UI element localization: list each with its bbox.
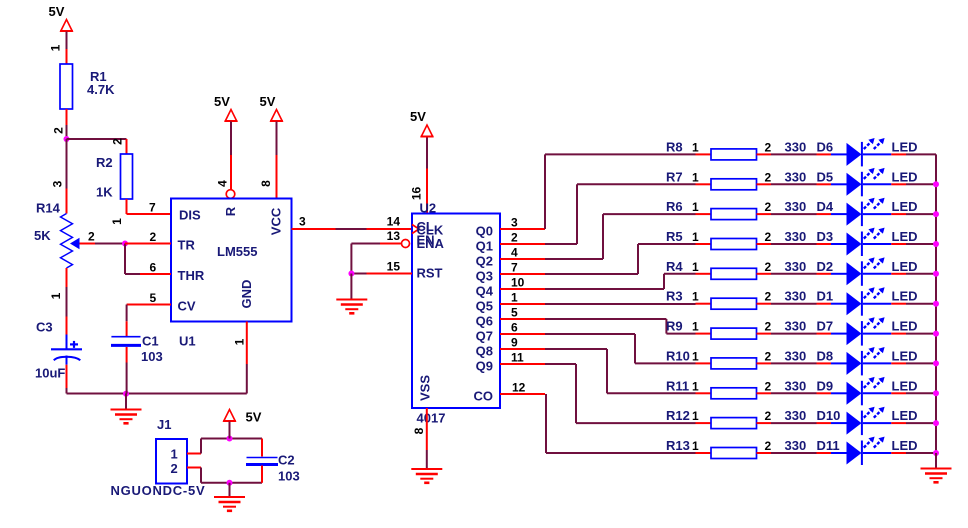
wire D8 to cathode bus [906, 362, 936, 364]
resistor R12 330 [666, 408, 806, 429]
svg-text:330: 330 [785, 199, 807, 214]
svg-text:2: 2 [765, 349, 772, 363]
wire D6 to cathode bus [906, 153, 936, 155]
cathode bus wire [935, 154, 937, 453]
svg-text:1: 1 [49, 44, 63, 51]
counter U2 4017 body [412, 201, 500, 426]
pin 8 wire VSS of U2 [426, 408, 428, 469]
svg-text:R2: R2 [96, 155, 113, 170]
wire R13 to D11 [771, 452, 817, 454]
wire U2 output to R3 [545, 303, 696, 305]
resistor R2 1K [96, 154, 133, 200]
wire C1 to ground rail [126, 347, 128, 394]
svg-text:2: 2 [765, 230, 772, 244]
resistor R4 330 [666, 259, 806, 280]
svg-text:GND: GND [239, 280, 254, 309]
svg-text:6: 6 [150, 261, 157, 275]
svg-text:LED: LED [892, 139, 918, 154]
wire R4 to D2 [771, 273, 817, 275]
pin 13 wire ENA of U2 [351, 243, 401, 245]
svg-text:2: 2 [765, 200, 772, 214]
wire U2 output to R4 [545, 274, 696, 289]
svg-text:CV: CV [178, 299, 196, 314]
pin 7 Q3 of U2 [476, 261, 545, 284]
svg-text:LM555: LM555 [217, 244, 257, 259]
svg-text:330: 330 [785, 289, 807, 304]
pin 1 wire GND of U1 [246, 322, 248, 394]
svg-text:R13: R13 [666, 438, 690, 453]
svg-text:3: 3 [51, 180, 65, 187]
svg-text:5V: 5V [49, 4, 65, 19]
wire D1 to cathode bus [906, 303, 936, 305]
svg-text:2: 2 [150, 230, 157, 244]
svg-text:1: 1 [692, 320, 699, 334]
svg-text:C2: C2 [278, 453, 295, 468]
svg-text:Q2: Q2 [476, 253, 493, 268]
wire R12 to D10 [771, 422, 817, 424]
svg-text:5V: 5V [410, 109, 426, 124]
LED D6 [817, 138, 918, 166]
svg-text:2: 2 [765, 290, 772, 304]
wire R14 wiper to TR node [80, 243, 126, 245]
pin 1 wire of J1 [187, 453, 201, 455]
svg-text:C3: C3 [36, 320, 53, 335]
svg-text:1: 1 [692, 349, 699, 363]
pin 13 bubble of U2 [402, 240, 410, 248]
svg-text:Q1: Q1 [476, 238, 493, 253]
svg-text:1: 1 [49, 292, 63, 299]
svg-text:LED: LED [892, 319, 918, 334]
capacitor C1 103 [111, 334, 163, 365]
svg-text:Q3: Q3 [476, 268, 493, 283]
svg-text:2: 2 [88, 230, 95, 244]
svg-text:10uF: 10uF [35, 366, 65, 381]
svg-text:3: 3 [299, 215, 306, 229]
power 5V net J1 [223, 410, 262, 439]
svg-text:330: 330 [785, 438, 807, 453]
svg-text:DIS: DIS [179, 208, 201, 223]
wire U2 output to R11 [545, 349, 696, 393]
svg-text:13: 13 [387, 229, 401, 243]
wire D7 to cathode bus [906, 333, 936, 335]
svg-text:8: 8 [259, 180, 273, 187]
svg-text:330: 330 [785, 259, 807, 274]
svg-text:1: 1 [692, 230, 699, 244]
svg-text:1: 1 [692, 409, 699, 423]
pin 11 Q9 of U2 [476, 351, 545, 374]
node J1 top junction [227, 436, 233, 442]
svg-text:R4: R4 [666, 259, 683, 274]
svg-text:1: 1 [110, 218, 124, 225]
svg-text:1: 1 [233, 338, 247, 345]
svg-text:7: 7 [511, 261, 518, 275]
svg-text:15: 15 [387, 260, 401, 274]
wire 5V to U1 pin4 [230, 122, 232, 190]
node RST junction [348, 271, 354, 277]
pin 5 wire CV of U1 [127, 304, 171, 306]
wire J1 to C2 bottom [201, 468, 262, 483]
svg-text:VCC: VCC [269, 207, 284, 235]
wire U2 output to R5 [545, 244, 696, 274]
svg-text:LED: LED [892, 408, 918, 423]
svg-text:D1: D1 [817, 289, 834, 304]
svg-text:NGUONDC-5V: NGUONDC-5V [111, 483, 206, 498]
pin 2 wire of J1 [187, 467, 201, 469]
svg-text:R5: R5 [666, 229, 683, 244]
svg-text:R8: R8 [666, 139, 683, 154]
pin 9 Q8 of U2 [476, 336, 545, 359]
svg-text:5V: 5V [246, 410, 262, 425]
pin 3 Q0 of U2 [476, 216, 545, 239]
svg-text:8: 8 [412, 427, 426, 434]
potentiometer R14 5K [34, 189, 80, 288]
LED D8 [817, 347, 918, 375]
pin 6 Q7 of U2 [476, 321, 545, 344]
svg-text:Q6: Q6 [476, 313, 493, 328]
node A junction [64, 136, 70, 142]
svg-text:D2: D2 [817, 259, 834, 274]
pin 2 wire TR of U1 [125, 243, 171, 245]
wire D10 to cathode bus [906, 422, 936, 424]
resistor R9 330 [666, 319, 806, 340]
pin 1 Q5 of U2 [476, 291, 545, 314]
wire 5V to U2 pin16 [426, 138, 428, 214]
wire node A to R14 [66, 139, 68, 189]
ground symbol left [111, 394, 142, 424]
wire D4 to cathode bus [906, 213, 936, 215]
svg-text:5: 5 [511, 306, 518, 320]
svg-text:1: 1 [171, 447, 178, 462]
svg-text:14: 14 [387, 215, 401, 229]
resistor R3 330 [666, 289, 806, 310]
resistor R10 330 [666, 348, 806, 369]
pin 5 Q6 of U2 [476, 306, 545, 329]
svg-text:5K: 5K [34, 228, 51, 243]
power 5V net U1 reset [214, 94, 237, 121]
wire R9 to D7 [771, 333, 817, 335]
svg-text:C1: C1 [142, 334, 159, 349]
pin 3 output wire of U1 [292, 228, 412, 230]
svg-text:R10: R10 [666, 348, 690, 363]
resistor R11 330 [666, 378, 806, 399]
svg-text:R: R [223, 206, 238, 216]
node J1 bottom junction [227, 480, 233, 486]
svg-text:LED: LED [892, 199, 918, 214]
svg-text:D7: D7 [817, 319, 834, 334]
svg-text:2: 2 [171, 461, 178, 476]
wire D9 to cathode bus [906, 392, 936, 394]
svg-text:D9: D9 [817, 378, 834, 393]
svg-text:1: 1 [692, 260, 699, 274]
resistor R8 330 [666, 139, 806, 160]
wire R14 to C3 [66, 287, 68, 317]
wire R6 to D4 [771, 213, 817, 215]
cathode bus junction row 2 [933, 181, 939, 187]
LED D5 [817, 168, 918, 196]
ground symbol LED bus [921, 453, 952, 482]
ground symbol J1 [214, 483, 245, 511]
svg-text:LED: LED [892, 378, 918, 393]
svg-text:1: 1 [692, 170, 699, 184]
wire R7 to D5 [771, 183, 817, 185]
wire U2 output to R8 [545, 154, 696, 229]
svg-text:D11: D11 [817, 438, 840, 453]
svg-text:VSS: VSS [418, 375, 433, 401]
wire D2 to cathode bus [906, 273, 936, 275]
svg-text:2: 2 [765, 439, 772, 453]
svg-text:2: 2 [111, 138, 125, 145]
svg-text:TR: TR [178, 238, 196, 253]
svg-text:Q5: Q5 [476, 298, 493, 313]
svg-text:Q4: Q4 [476, 283, 494, 298]
svg-text:5V: 5V [260, 94, 276, 109]
wire CV to C1 [126, 305, 128, 337]
capacitor C2 103 [246, 439, 300, 484]
svg-text:THR: THR [178, 268, 205, 283]
resistor R13 330 [666, 438, 806, 459]
svg-text:1: 1 [511, 291, 518, 305]
svg-text:4.7K: 4.7K [87, 82, 115, 97]
wire D11 to cathode bus [906, 452, 936, 454]
LED D9 [817, 377, 918, 405]
svg-text:2: 2 [765, 170, 772, 184]
svg-text:Q7: Q7 [476, 328, 493, 343]
svg-text:2: 2 [765, 260, 772, 274]
power 5V net R1 [49, 4, 73, 31]
pin 10 Q4 of U2 [476, 276, 545, 299]
wire TR node down to THR [124, 244, 126, 275]
svg-text:R7: R7 [666, 169, 683, 184]
svg-text:LED: LED [892, 259, 918, 274]
svg-text:R12: R12 [666, 408, 690, 423]
svg-text:2: 2 [765, 140, 772, 154]
svg-text:Q9: Q9 [476, 358, 493, 373]
cathode bus junction row 8 [933, 360, 939, 366]
ground symbol U2 enable [336, 274, 367, 314]
svg-text:6: 6 [511, 321, 518, 335]
LED D11 [817, 437, 918, 465]
pin 6 wire THR of U1 [125, 273, 171, 275]
svg-text:330: 330 [785, 319, 807, 334]
cathode bus junction row 3 [933, 211, 939, 217]
svg-text:D4: D4 [817, 199, 834, 214]
op-amp timer U1 LM555 body [171, 199, 292, 349]
ground symbol U2 VSS [411, 468, 442, 470]
resistor R5 330 [666, 229, 806, 250]
wire J1 to 5V and C2 top [201, 439, 262, 454]
svg-text:103: 103 [141, 349, 163, 364]
wire U2 output to R13 [546, 394, 696, 453]
svg-text:330: 330 [785, 139, 807, 154]
wire R11 to D9 [771, 392, 817, 394]
resistor R7 330 [666, 169, 806, 190]
svg-text:11: 11 [511, 351, 524, 365]
svg-text:330: 330 [785, 229, 807, 244]
wire D5 to cathode bus [906, 183, 936, 185]
svg-text:4: 4 [216, 180, 230, 187]
svg-text:D3: D3 [817, 229, 834, 244]
resistor R6 330 [666, 199, 806, 220]
wire 5V to R1 [66, 32, 68, 65]
resistor R1 4.7K [60, 64, 115, 109]
svg-text:330: 330 [785, 169, 807, 184]
svg-text:D8: D8 [817, 348, 834, 363]
ground rail wire [67, 393, 247, 395]
cathode bus junction row 6 [933, 301, 939, 307]
wire node A to R2 [67, 138, 127, 140]
wire U2 output to R6 [545, 214, 696, 259]
cathode bus junction row 5 [933, 271, 939, 277]
pin 15 wire RST of U2 [351, 273, 412, 275]
wire U2 output to R12 [545, 364, 696, 423]
svg-text:2: 2 [765, 409, 772, 423]
pin 12 CO of U2 [474, 381, 546, 404]
svg-text:Q0: Q0 [476, 223, 493, 238]
pin 4 Q2 of U2 [476, 246, 545, 269]
svg-text:RST: RST [417, 266, 443, 281]
svg-text:ENA: ENA [417, 236, 445, 251]
wire U2 output to R10 [545, 334, 696, 363]
svg-text:R3: R3 [666, 289, 683, 304]
LED D2 [817, 257, 918, 285]
power 5V net U1 VCC [260, 94, 283, 121]
cathode bus junction row 7 [933, 331, 939, 337]
svg-text:D6: D6 [817, 139, 834, 154]
wire R1 to node A [66, 109, 68, 139]
svg-text:330: 330 [785, 408, 807, 423]
svg-text:R6: R6 [666, 199, 683, 214]
svg-text:R11: R11 [666, 378, 689, 393]
svg-text:LED: LED [892, 348, 918, 363]
LED D1 [817, 287, 918, 315]
svg-text:1: 1 [692, 140, 699, 154]
wire U2 output to R7 [545, 184, 696, 244]
svg-text:2: 2 [511, 231, 518, 245]
svg-text:5V: 5V [214, 94, 230, 109]
svg-text:J1: J1 [157, 417, 171, 432]
cathode bus junction row 11 [933, 450, 939, 456]
connector J1 NGUONDC-5V [111, 417, 206, 498]
cathode bus junction row 4 [933, 241, 939, 247]
wire R3 to D1 [771, 303, 817, 305]
svg-text:1: 1 [692, 439, 699, 453]
wire R2 to DIS pin7 [127, 199, 172, 214]
pin 4 bubble [226, 190, 235, 199]
svg-text:9: 9 [511, 336, 518, 350]
svg-text:R14: R14 [36, 201, 61, 216]
svg-text:LED: LED [892, 438, 918, 453]
power 5V net U2 VDD [410, 109, 433, 137]
LED D10 [817, 407, 918, 435]
svg-text:7: 7 [149, 201, 156, 215]
wire R8 to D6 [771, 153, 817, 155]
capacitor C3 10uF polarized [35, 317, 82, 389]
svg-text:D5: D5 [817, 169, 834, 184]
svg-text:1K: 1K [96, 185, 113, 200]
svg-text:330: 330 [785, 378, 807, 393]
wire C3 to ground rail [66, 388, 68, 394]
svg-text:LED: LED [892, 169, 918, 184]
svg-text:CO: CO [474, 388, 494, 403]
svg-text:16: 16 [410, 187, 424, 201]
svg-text:1: 1 [692, 290, 699, 304]
svg-text:D10: D10 [817, 408, 841, 423]
svg-text:R9: R9 [666, 319, 683, 334]
cathode bus junction row 10 [933, 420, 939, 426]
svg-text:12: 12 [512, 381, 526, 395]
wire D3 to cathode bus [906, 243, 936, 245]
LED D4 [817, 198, 918, 226]
wire ENA to RST node [350, 244, 352, 274]
svg-text:LED: LED [892, 229, 918, 244]
ground rail junction [123, 391, 129, 397]
svg-text:330: 330 [785, 348, 807, 363]
svg-text:2: 2 [52, 127, 66, 134]
svg-text:5: 5 [150, 291, 157, 305]
svg-text:103: 103 [278, 469, 300, 484]
wire into R2 top [126, 139, 128, 154]
wire R10 to D8 [771, 362, 817, 364]
LED D7 [817, 317, 918, 345]
svg-text:2: 2 [765, 379, 772, 393]
svg-text:Q8: Q8 [476, 343, 493, 358]
svg-text:U1: U1 [179, 334, 196, 349]
svg-text:3: 3 [511, 216, 518, 230]
pin 2 Q1 of U2 [476, 231, 545, 254]
svg-text:LED: LED [892, 289, 918, 304]
wire U2 output to R9 [545, 319, 696, 334]
wire 5V to U1 pin8 [276, 122, 278, 199]
svg-text:10: 10 [511, 276, 525, 290]
cathode bus junction row 9 [933, 390, 939, 396]
svg-text:1: 1 [692, 379, 699, 393]
LED D3 [817, 228, 918, 256]
svg-text:4017: 4017 [417, 411, 446, 426]
svg-text:2: 2 [765, 320, 772, 334]
node TR junction [122, 241, 128, 247]
svg-text:1: 1 [692, 200, 699, 214]
svg-text:4: 4 [511, 246, 518, 260]
wire R5 to D3 [771, 243, 817, 245]
